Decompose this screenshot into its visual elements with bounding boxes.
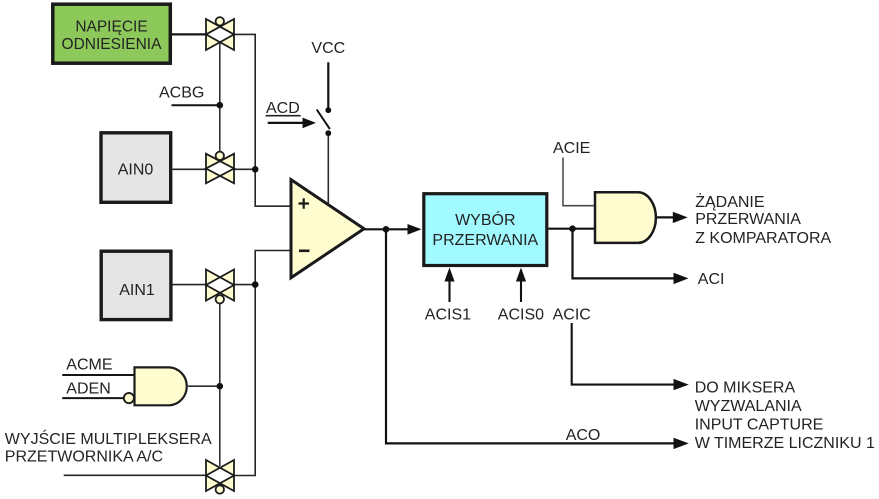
AND gate U2 (interrupt enable) <box>595 192 656 243</box>
wire: U3 gate output to enable chain <box>188 385 220 387</box>
switch S3 (transmission gate, AIN1) <box>206 270 234 304</box>
svg-text:AIN0: AIN0 <box>118 161 154 178</box>
node: minus net junction (AIN1) <box>252 281 259 288</box>
svg-text:Z KOMPARATORA: Z KOMPARATORA <box>695 230 831 247</box>
svg-text:ACIC: ACIC <box>553 307 591 324</box>
wire: AIN0 box to switch S2 <box>173 168 207 170</box>
svg-text:VCC: VCC <box>311 40 345 57</box>
svg-text:ACIS1: ACIS1 <box>425 307 471 324</box>
wire: ACI tap down and right <box>573 229 675 279</box>
wire: VCC to switch top contact <box>327 62 329 110</box>
wire: ACIS1 arrow into block <box>448 279 450 302</box>
wire: ACIC down and right to capture mixer <box>572 323 674 385</box>
wire: enable chain S1 bottom to S2 top (ACBG net) <box>219 42 221 153</box>
label: interrupt request output <box>695 192 831 247</box>
svg-text:WYJŚCIE MULTIPLEKSERA: WYJŚCIE MULTIPLEKSERA <box>5 429 212 448</box>
svg-text:PRZERWANIA: PRZERWANIA <box>432 232 538 249</box>
label: capture trigger mixer output <box>695 380 875 453</box>
svg-text:W TIMERZE LICZNIKU 1: W TIMERZE LICZNIKU 1 <box>695 435 875 452</box>
wire: ACD underline <box>266 115 301 117</box>
svg-text:ACO: ACO <box>566 427 601 444</box>
wire: AND gate output (interrupt request) <box>656 216 674 218</box>
wire: S3 output to - net <box>234 284 255 286</box>
svg-text:ACBG: ACBG <box>159 85 204 102</box>
label: A/C multiplexer output <box>5 429 212 466</box>
block: NAPIECIE ODNIESIENIA (reference voltage) <box>53 4 171 63</box>
wire: minus net from S4 output up to comparator - input <box>234 251 291 476</box>
switch S1 (transmission gate, reference voltage) <box>206 17 234 50</box>
block: WYBOR PRZERWANIA (interrupt select) <box>424 194 547 266</box>
svg-text:PRZETWORNIKA A/C: PRZETWORNIKA A/C <box>5 448 163 465</box>
node: comparator output junction (ACO tap) <box>383 226 390 233</box>
wire: multiplexer output to S4 <box>64 474 206 476</box>
wire: ACBG stub <box>172 104 220 106</box>
node: ACBG junction <box>217 102 224 109</box>
wire: ACO tap down and right <box>386 229 674 443</box>
svg-text:ACI: ACI <box>698 271 725 288</box>
wire: enable chain S3 bottom to S4 top <box>219 303 221 466</box>
AND gate U3 (ACME/ADEN enable) <box>124 367 187 405</box>
svg-text:ODNIESIENIA: ODNIESIENIA <box>62 36 163 53</box>
wire: AIN1 box to switch S3 <box>173 284 206 286</box>
node: plus net junction (AIN0) <box>252 166 259 173</box>
svg-text:ACIS0: ACIS0 <box>498 307 544 324</box>
wire: ACIE to AND gate top input <box>563 158 595 206</box>
wire: green box to switch S1 <box>172 33 206 35</box>
wire: S2 output to + net <box>234 168 255 170</box>
block: AIN1 <box>101 251 171 319</box>
wire: ACIS0 arrow into block <box>520 279 522 302</box>
switch S2 (transmission gate, AIN0) <box>206 152 234 184</box>
svg-text:INPUT CAPTURE: INPUT CAPTURE <box>695 417 824 434</box>
node: switch bottom contact <box>325 130 331 136</box>
wire: switch bottom contact to comparator power <box>327 133 329 208</box>
svg-text:WYBÓR: WYBÓR <box>455 210 515 229</box>
svg-text:DO MIKSERA: DO MIKSERA <box>695 380 796 397</box>
wire: S1 output right, down to comparator + input <box>234 34 291 206</box>
wire: ACD arrow <box>268 122 305 124</box>
wire: comparator output to interrupt-select block <box>364 228 409 230</box>
block: AIN0 <box>101 133 171 203</box>
svg-text:ACME: ACME <box>66 357 112 374</box>
wire: block output to AND gate <box>548 228 595 230</box>
svg-text:ACIE: ACIE <box>553 140 590 157</box>
svg-text:PRZERWANIA: PRZERWANIA <box>695 211 801 228</box>
node: switch top contact <box>325 107 331 113</box>
op-amp U1 (analog comparator) <box>291 180 364 278</box>
svg-text:AIN1: AIN1 <box>119 282 155 299</box>
svg-text:ACD: ACD <box>266 100 300 117</box>
svg-text:WYZWALANIA: WYZWALANIA <box>695 398 802 415</box>
node: ACI tap junction <box>569 225 576 232</box>
switch S4 (transmission gate, mux output) <box>206 460 234 494</box>
switch SW lever (ACD power switch) <box>317 110 330 130</box>
node: enable chain junction (U3 output) <box>217 383 224 390</box>
wire: ADEN input <box>62 397 124 399</box>
svg-text:NAPIĘCIE: NAPIĘCIE <box>75 19 147 36</box>
svg-text:ŻĄDANIE: ŻĄDANIE <box>695 192 764 211</box>
svg-text:ADEN: ADEN <box>66 380 110 397</box>
wire: ACME input <box>62 374 134 376</box>
